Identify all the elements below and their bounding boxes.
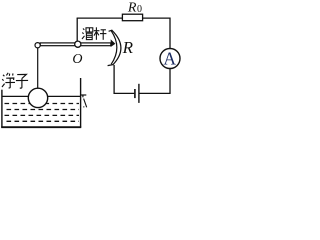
svg-text:0: 0 xyxy=(137,4,142,15)
svg-text:R: R xyxy=(127,0,137,15)
svg-text:O: O xyxy=(72,52,82,67)
svg-text:A: A xyxy=(163,49,176,69)
svg-text:R: R xyxy=(122,38,134,57)
